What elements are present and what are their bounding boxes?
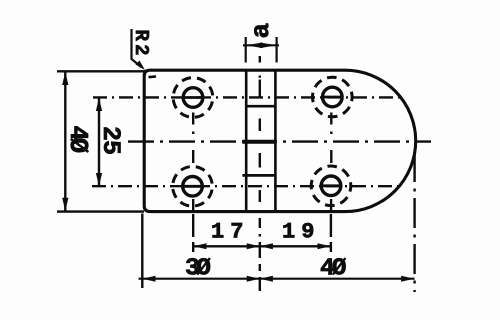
dim 30: left extension (141, 214, 143, 289)
hole bottom-left countersink dashed circle (165, 159, 220, 214)
hole top-right countersink dashed circle (305, 70, 359, 124)
hole top-right solid circle (323, 87, 343, 107)
dim 17: arrow right / dim 19 arrow left (247, 243, 260, 249)
dim 40 left: extension bottom (57, 210, 144, 212)
dim 19: arrow right (318, 243, 331, 249)
main axis centerline (128, 140, 431, 142)
dim 25: line (98, 98, 100, 186)
svg-text:19: 19 (282, 220, 320, 245)
svg-text:4Ø: 4Ø (63, 126, 92, 153)
hole bottom-left center bar (183, 185, 201, 188)
barrel joint 1 (245, 105, 276, 108)
hole bottom-right center bar (321, 184, 339, 187)
svg-text:R2: R2 (130, 30, 152, 59)
hole top-left solid circle (183, 88, 203, 108)
dim 40 right: extension dash-dot (413, 152, 415, 292)
dim 25: arrow up (96, 98, 102, 111)
dim a: line (243, 44, 279, 46)
hole bottom-right countersink dashed circle (308, 163, 354, 209)
dim a: extension left (245, 37, 247, 63)
dim 25: arrow down (96, 173, 102, 186)
dim a: arrow right (260, 43, 277, 49)
dim 30: arrow left (142, 276, 155, 282)
hole top-right center bar (323, 96, 341, 99)
R2 leader (132, 29, 142, 68)
R2 leader arrow (136, 61, 146, 71)
svg-text:a: a (246, 23, 276, 39)
bottom row centerline (92, 185, 400, 187)
left holes column centerline (192, 113, 194, 253)
dim 17: arrow left (193, 243, 206, 249)
plate outline (144, 70, 416, 211)
dim 30: arrow right / 40 arrow left (247, 276, 260, 282)
dim a: extension right (276, 37, 278, 63)
dim 40 left: arrow up (62, 72, 68, 85)
svg-text:25: 25 (96, 126, 125, 154)
dim 40 left: line (64, 72, 66, 211)
hole bottom-left solid circle (183, 177, 203, 197)
svg-text:17: 17 (211, 220, 249, 245)
hole top-left countersink dashed circle (170, 74, 217, 121)
hole top-left center bar (183, 96, 201, 99)
svg-text:4Ø: 4Ø (320, 256, 347, 283)
corner tick (149, 75, 157, 78)
barrel left line (245, 70, 248, 211)
dim 40 left: extension top (57, 70, 146, 72)
barrel joint 2 (main axis, thick) (242, 140, 276, 144)
barrel axis centerline (259, 56, 261, 291)
barrel joint 3 (242, 174, 276, 177)
top row centerline (93, 96, 400, 98)
dim 17/19: line (193, 245, 331, 247)
dim 40 left: arrow down (62, 198, 68, 211)
dim 30/40: line (139, 278, 415, 280)
hole bottom-right solid circle (321, 176, 341, 196)
dim 40: arrow right (401, 276, 414, 282)
barrel right line (274, 70, 277, 211)
dim a: arrow left (246, 43, 263, 49)
right holes column centerline (330, 113, 333, 253)
svg-text:3Ø: 3Ø (185, 256, 211, 283)
